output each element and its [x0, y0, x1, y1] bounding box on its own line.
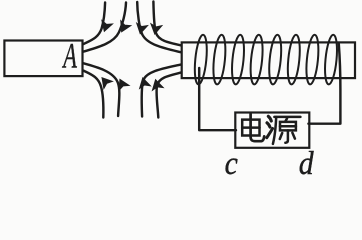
field line B1 (bottom outer, into bar): [84, 71, 104, 118]
power supply box: [235, 113, 309, 148]
field line B4 (bottom outer, into solenoid): [156, 73, 180, 118]
field line L2 (top inner, into bar): [84, 3, 127, 52]
arrowhead L2: [115, 19, 132, 35]
wire right lead: [308, 44, 340, 124]
wire left lead: [199, 68, 236, 130]
bar magnet A: [4, 41, 82, 77]
svg-text:c: c: [225, 144, 238, 177]
field line B3 (bottom inner, into solenoid): [142, 65, 181, 117]
field line L1 (top outer, into bar): [84, 3, 106, 45]
coil turn 4: [249, 34, 265, 85]
field line L4 (top outer, into solenoid): [153, 2, 180, 46]
label yuan (源): [267, 116, 301, 144]
arrowhead B4: [149, 77, 165, 91]
arrowhead L4: [148, 23, 163, 37]
arrowhead L3: [133, 22, 148, 36]
label dian (电): [242, 114, 264, 141]
coil turn 5: [267, 34, 283, 85]
solenoid core: [182, 42, 355, 78]
coil turn 3: [230, 34, 246, 85]
coil turn 1: [193, 34, 209, 85]
field line B2 (bottom inner, into bar): [84, 63, 120, 116]
coil turn 7: [305, 34, 321, 85]
arrowhead B2: [113, 76, 130, 92]
svg-text:A: A: [62, 36, 78, 76]
arrowhead B3: [136, 75, 152, 89]
arrowhead B1: [96, 73, 114, 90]
coil turn 8: [323, 34, 339, 85]
field line L3 (top inner, into solenoid): [137, 2, 181, 52]
coil turn 6: [286, 34, 302, 85]
coil turn 2: [212, 34, 228, 85]
arrowhead L1: [98, 19, 114, 34]
svg-text:d: d: [299, 144, 314, 177]
